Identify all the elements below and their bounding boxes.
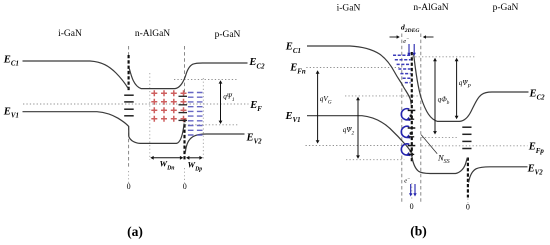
valence band curve E_V1 with drop at interface and AlGaN well (a) [23, 112, 185, 144]
svg-text:(a): (a) [127, 224, 143, 239]
conduction band curve E_C1 (b) [307, 46, 411, 105]
bold interface line AlGaN/p-GaN (b) [467, 158, 469, 198]
depletion edge dotted line W_Dn left (a) [149, 73, 151, 160]
svg-text:EV2: EV2 [246, 133, 263, 146]
dotted reference line below qPhi_b (b) [422, 137, 459, 139]
Fermi dotted line E_Fn (b) [306, 67, 400, 69]
barrier height arrow qPhi_b (b) [433, 58, 437, 135]
dotted barrier top reference line (b) [412, 56, 476, 58]
dotted line bottom of qPsi2 (b) [346, 159, 404, 161]
svg-text:qΦb: qΦb [438, 96, 450, 106]
svg-text:EFp: EFp [528, 142, 545, 155]
svg-text:(b): (b) [410, 224, 427, 239]
svg-text:qΨ2: qΨ2 [343, 126, 355, 136]
svg-text:EV2: EV2 [527, 163, 544, 176]
svg-text:i-GaN: i-GaN [58, 29, 82, 39]
Fermi level dotted line E_F (a) [23, 103, 249, 105]
interface states dashes first interface (a) [124, 95, 134, 116]
dotted reference line bottom of qPsi1 (a) [185, 124, 238, 126]
left 2DEG boundary dashed line (b) [401, 34, 403, 205]
svg-text:EC1: EC1 [3, 54, 19, 67]
svg-text:EV1: EV1 [285, 111, 301, 124]
svg-text:e−: e− [403, 38, 409, 46]
pointer line to interface states (b) [421, 135, 437, 154]
dotted line at 2DEG conduction level (b) [345, 95, 421, 97]
valence band curve E_V1 descending to interface (b) [307, 116, 467, 174]
band bending arrow qPsi2 (b) [356, 97, 360, 159]
bold interface segment (valence spike) second interface (a) [183, 119, 185, 160]
svg-text:EV1: EV1 [3, 107, 19, 120]
interface states dashes second interface (a) [179, 96, 188, 120]
svg-text:NSS: NSS [437, 153, 450, 166]
interface dashed line i-GaN/n-AlGaN upper (a) [128, 46, 130, 56]
d_2DEG left arrow (b) [390, 35, 400, 38]
svg-text:p-GaN: p-GaN [493, 3, 519, 13]
interface dashed line i-GaN/n-AlGaN lower (a) [128, 127, 130, 169]
svg-text:0: 0 [127, 182, 131, 191]
blue electron arrows into 2DEG (b) [407, 44, 410, 56]
depletion edge dotted line W_Dp right (a) [202, 78, 204, 160]
bold interface segment (conduction notch) first interface (a) [128, 55, 130, 91]
svg-text:n-AlGaN: n-AlGaN [135, 29, 170, 39]
svg-text:p-GaN: p-GaN [215, 30, 241, 40]
depletion width arrow W_Dp (a) [186, 156, 203, 160]
svg-text:qΨ1: qΨ1 [223, 93, 235, 103]
svg-text:EC1: EC1 [285, 42, 301, 55]
svg-text:qVG: qVG [320, 95, 332, 105]
svg-text:e−: e− [404, 177, 410, 185]
dotted stub above 0 at first interface (a) [128, 171, 130, 183]
svg-text:n-AlGaN: n-AlGaN [413, 3, 448, 13]
band bending arrow qPsi1 (a) [219, 80, 223, 124]
svg-text:qΨP: qΨP [459, 79, 472, 89]
trapped interface electrons with capture arrows N_SS (b) [401, 109, 415, 121]
svg-text:0: 0 [410, 202, 414, 211]
dotted stub above 0 i-GaN/AlGaN interface (b) [411, 183, 413, 201]
band bending arrow qPsi_P (b) [455, 58, 459, 119]
interface dashed line n-AlGaN/p-GaN upper (a) [184, 46, 186, 95]
dotted stub above 0 at second interface (a) [184, 168, 186, 183]
valence band curve E_V2 rising from p-GaN interface (b) [469, 167, 528, 183]
ionized donors red plus grid (a) [151, 90, 186, 122]
depletion width arrow W_Dn (a) [150, 156, 183, 160]
svg-text:0: 0 [466, 203, 470, 212]
bold interface line i-GaN/n-AlGaN (b) [411, 52, 413, 163]
svg-text:EF: EF [249, 100, 262, 113]
svg-text:i-GaN: i-GaN [337, 4, 361, 14]
ionized acceptors blue minus columns (a) [188, 93, 203, 136]
svg-text:EC2: EC2 [248, 57, 265, 70]
blue electron escape arrows bottom (b) [409, 184, 412, 197]
conduction band curve E_C1 (a) [23, 61, 129, 89]
svg-text:EC2: EC2 [529, 88, 546, 101]
dotted line E_Fp left extension bottom of qV_G (b) [306, 145, 405, 147]
d_2DEG right arrow (b) [423, 35, 434, 38]
svg-text:EFn: EFn [289, 63, 306, 76]
svg-text:d2DEG: d2DEG [401, 23, 419, 35]
Fermi dotted line E_Fp (b) [422, 145, 528, 147]
valence band curve E_V2 rising from second interface (a) [185, 134, 244, 153]
right 2DEG boundary dashed line (b) [420, 34, 422, 205]
svg-text:WDp: WDp [188, 160, 203, 173]
dotted reference line top of qPsi1 (a) [174, 79, 238, 81]
acceptor states dashes p-GaN (b) [462, 127, 471, 148]
svg-text:0: 0 [183, 182, 187, 191]
conduction band spike and well + rise to E_C2 (a) [129, 63, 247, 89]
thin dashed stub above 0 AlGaN/p-GaN interface (b) [467, 199, 469, 205]
2DEG electron accumulation blue dashes (b) [393, 55, 411, 82]
gate bias arrow qV_G (b) [316, 70, 320, 143]
svg-text:WDn: WDn [160, 159, 175, 172]
conduction band AlGaN barrier descending + well + rise to E_C2 (b) [414, 54, 529, 122]
